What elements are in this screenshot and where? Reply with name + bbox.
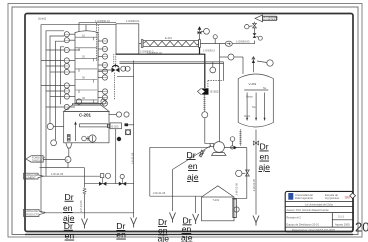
svg-text:Nm: Nm bbox=[252, 105, 256, 109]
instrument tag marks bbox=[64, 34, 107, 107]
bottom drenaje label 4 bbox=[181, 215, 193, 242]
svg-text:Equipo de Destilacion 20-01: Equipo de Destilacion 20-01 bbox=[287, 223, 320, 227]
V-201 inlet instrument bbox=[228, 54, 234, 60]
mid drain corner line bbox=[150, 146, 210, 148]
signal dashed from valve down bbox=[114, 73, 116, 100]
drain label mid-left bbox=[187, 150, 199, 182]
svg-text:V-201: V-201 bbox=[249, 82, 257, 86]
drain line V-201 bbox=[255, 130, 257, 215]
overhead piping box bbox=[116, 24, 139, 54]
ejector outlet instrument bbox=[202, 112, 208, 118]
svg-text:T-201: T-201 bbox=[213, 198, 220, 202]
condenser left flange bbox=[141, 40, 143, 48]
aux instrument circle bbox=[210, 67, 216, 73]
svg-text:1-GW300-01: 1-GW300-01 bbox=[95, 19, 110, 23]
kettle agitator icon bbox=[82, 136, 87, 141]
drain arrow 1 bbox=[82, 219, 88, 229]
drain arrow V-201 bbox=[253, 216, 259, 226]
svg-text:1-GW300-2: 1-GW300-2 bbox=[140, 50, 154, 54]
svg-text:200: 200 bbox=[355, 220, 368, 235]
line to tank bbox=[150, 195, 202, 197]
left signal bus 2 bbox=[46, 31, 64, 176]
svg-text:E-201: E-201 bbox=[165, 36, 172, 40]
svg-text:SB: SB bbox=[345, 195, 351, 200]
column to valve line bbox=[98, 69, 112, 71]
aux signal rectangle right edge bbox=[223, 62, 225, 81]
tank inlet valve instrument bbox=[236, 170, 242, 176]
E-203 drain dot bbox=[117, 137, 121, 141]
svg-text:Revision # 2: Revision # 2 bbox=[287, 216, 302, 220]
kettle transition cone bbox=[64, 105, 109, 111]
kettle right level bridle circles bbox=[116, 112, 121, 117]
kettle bottoms line across bbox=[41, 167, 85, 169]
E-203 outlet valve dark bbox=[125, 123, 129, 126]
aux signal dashed bottom bbox=[208, 80, 224, 82]
left signal bus 5 bbox=[61, 47, 65, 104]
tank T-201 bbox=[202, 197, 235, 221]
kettle bottom nozzle bbox=[66, 143, 72, 148]
condenser outlet stub bbox=[199, 47, 201, 54]
bottom drenaje label 1 bbox=[63, 192, 75, 241]
E-203 reboiler box bbox=[110, 123, 122, 129]
svg-text:ALIMENT: ALIMENT bbox=[25, 176, 37, 180]
signal dashed pair down from box bbox=[113, 54, 115, 64]
barometric leg hatched bbox=[203, 95, 205, 112]
drain drop line bbox=[172, 170, 174, 212]
left signal bus 3 bbox=[50, 36, 64, 123]
svg-text:Dr: Dr bbox=[260, 142, 269, 152]
svg-text:aje: aje bbox=[181, 233, 193, 242]
svg-text:1-GW30-03: 1-GW30-03 bbox=[236, 40, 250, 44]
instrument circles right column bbox=[98, 38, 108, 106]
drain line flange valve bbox=[253, 141, 258, 145]
svg-text:en: en bbox=[63, 203, 73, 213]
svg-text:1-P-21-06: 1-P-21-06 bbox=[131, 152, 135, 164]
svg-text:E-202: E-202 bbox=[211, 90, 219, 94]
vent valve lower instrument bbox=[258, 36, 262, 40]
E-203 instrument in square bbox=[125, 130, 130, 135]
svg-text:aje: aje bbox=[187, 172, 199, 182]
kettle top instrument circles bbox=[76, 99, 81, 104]
valve 2 instrument circle bbox=[120, 174, 124, 178]
bottom drain header line bbox=[25, 233, 353, 235]
V-201 bottom outlet hatched bbox=[239, 129, 241, 146]
overhead vapor line bbox=[79, 23, 116, 32]
vent valve upper instrument bbox=[245, 25, 249, 29]
condenser vent instrument bbox=[204, 28, 210, 34]
svg-text:PRODUCTO: PRODUCTO bbox=[25, 212, 40, 216]
bottoms line to lower area bbox=[40, 167, 69, 169]
kettle left lower circle bbox=[51, 140, 57, 146]
dashed pair from overhead bbox=[96, 23, 98, 61]
pump discharge check valve bbox=[231, 146, 234, 149]
valve 1 bbox=[99, 182, 106, 186]
condenser vent arrow up bbox=[198, 26, 202, 30]
vent valve lower (closed) bbox=[253, 33, 257, 38]
svg-text:en: en bbox=[260, 152, 270, 162]
condensate line right bbox=[200, 43, 225, 45]
accumulator V-201 shell bbox=[238, 74, 273, 127]
reflux control valve bbox=[112, 64, 120, 73]
tank side instrument bbox=[234, 207, 239, 212]
svg-text:C-201: C-201 bbox=[79, 112, 92, 117]
bottom drenaje label 2 bbox=[116, 221, 126, 240]
condenser right flange bbox=[199, 40, 201, 48]
svg-text:NL: NL bbox=[263, 86, 267, 90]
drain drop line 4 bbox=[195, 196, 197, 213]
vent line to flag bbox=[232, 41, 254, 44]
valve 2 bbox=[119, 182, 126, 186]
svg-text:en: en bbox=[65, 231, 75, 241]
column C-201 shell bbox=[75, 31, 98, 103]
logo bbox=[288, 193, 293, 200]
pump discharge line bbox=[224, 147, 246, 149]
tank side pipe bbox=[233, 199, 236, 218]
lower pipe pair right of valve bbox=[117, 76, 134, 78]
svg-text:TANQUE: TANQUE bbox=[32, 158, 43, 162]
condensate line instrument bbox=[213, 35, 217, 39]
bottoms drain pipe bbox=[85, 183, 134, 185]
svg-text:La Universidad del Zulia: La Universidad del Zulia bbox=[305, 202, 333, 206]
svg-text:Zulia Ingenieria: Zulia Ingenieria bbox=[295, 196, 313, 200]
V-201 level arrows bbox=[246, 93, 248, 121]
left bus links to instruments bbox=[46, 49, 64, 51]
kettle left instrument circle bbox=[47, 123, 53, 129]
svg-text:A COMPRESOR: A COMPRESOR bbox=[263, 18, 278, 21]
off-page connector flag vent bbox=[255, 15, 263, 22]
control valve instrument circles bbox=[121, 66, 126, 71]
kettle shell C-201 bbox=[64, 111, 109, 142]
valve 1 instrument square bbox=[100, 174, 103, 178]
svg-text:Ing Quimica: Ing Quimica bbox=[325, 196, 339, 200]
V-201 PSV circle bbox=[267, 60, 273, 66]
svg-text:2-1-1: 2-1-1 bbox=[338, 215, 345, 219]
feed line 2 bbox=[45, 212, 133, 214]
bottom drenaje label 3 bbox=[158, 217, 170, 242]
column bottom flange bbox=[72, 104, 100, 105]
pump P-201 bbox=[214, 142, 225, 153]
overhead vapor thick line to ejector bbox=[116, 54, 205, 88]
condenser E-201 shell bbox=[143, 41, 199, 47]
svg-text:1-GW30-2: 1-GW30-2 bbox=[203, 48, 216, 52]
condenser vent valve bbox=[198, 31, 202, 35]
flow oval bbox=[225, 41, 232, 46]
discharge down line to tank bbox=[232, 148, 247, 199]
mid vertical line bbox=[133, 61, 135, 218]
svg-text:Presentacion: GG-D-DEST-201-00: Presentacion: GG-D-DEST-201-0028 bbox=[292, 228, 335, 232]
drain arrow 4 bbox=[193, 214, 199, 224]
svg-text:1-W-21-06: 1-W-21-06 bbox=[51, 172, 64, 176]
E-203 valve to mid line bbox=[128, 124, 134, 126]
drain spring line bbox=[84, 168, 86, 188]
left signal bus 4 bbox=[56, 41, 65, 140]
bottoms flag left bbox=[26, 156, 43, 162]
drain label mid-right bbox=[259, 142, 271, 173]
left signal bus 1 bbox=[41, 25, 86, 213]
svg-text:Agosto 2008: Agosto 2008 bbox=[335, 222, 350, 226]
V-201 normal level line bbox=[244, 89, 268, 91]
tank inlet valve bbox=[246, 170, 250, 176]
svg-text:Asesor: Prof. Antonio Raquel F: Asesor: Prof. Antonio Raquel Fuente bbox=[287, 208, 330, 212]
kettle internal weir slot bbox=[80, 124, 108, 127]
condenser vent stem bbox=[199, 30, 201, 40]
feed flag 2 bbox=[24, 209, 46, 216]
svg-text:2-W-21-05: 2-W-21-05 bbox=[252, 178, 256, 191]
kettle level arrow bbox=[75, 123, 77, 142]
bottoms instrument circle bbox=[65, 157, 71, 163]
svg-text:2-W-21-05: 2-W-21-05 bbox=[234, 183, 238, 196]
line from condenser area down to pump bbox=[219, 44, 221, 143]
condenser coil bbox=[143, 41, 199, 45]
valve 1 instrument circle bbox=[105, 173, 110, 178]
pump suction diagonal bbox=[173, 146, 212, 170]
svg-text:E-203: E-203 bbox=[112, 124, 119, 128]
fold diamond bbox=[350, 193, 356, 199]
suction diagonal valve bbox=[200, 150, 204, 157]
svg-text:en: en bbox=[116, 230, 126, 240]
V-201 top relief nozzle bbox=[252, 63, 254, 72]
svg-text:Dr: Dr bbox=[64, 221, 73, 231]
ejector E-202 bbox=[201, 88, 209, 95]
svg-text:1-GW30-01: 1-GW30-01 bbox=[126, 19, 140, 23]
drain arrow 3 bbox=[170, 213, 176, 223]
svg-text:aje: aje bbox=[158, 234, 170, 242]
instrument circles left column bbox=[64, 32, 80, 110]
svg-text:2(mk)2: 2(mk)2 bbox=[38, 17, 47, 21]
kettle level gauge bbox=[67, 135, 70, 142]
title row dividers bbox=[285, 200, 353, 202]
svg-text:Nmax: Nmax bbox=[246, 95, 253, 99]
vent valve upper bbox=[253, 23, 257, 28]
title block outer bbox=[285, 191, 355, 232]
downcomer to condenser bbox=[139, 44, 142, 55]
svg-text:en: en bbox=[188, 161, 198, 171]
svg-text:2-W-21-06: 2-W-21-06 bbox=[153, 191, 166, 195]
svg-text:2-P-21-05: 2-P-21-05 bbox=[79, 200, 83, 212]
column trays bbox=[75, 37, 97, 103]
drain arrow 2 bbox=[131, 218, 137, 228]
svg-text:Dr: Dr bbox=[187, 150, 196, 160]
svg-text:Dr: Dr bbox=[65, 192, 74, 202]
reflux lines to accumulator bbox=[120, 61, 224, 63]
svg-text:Nmin: Nmin bbox=[244, 114, 251, 118]
svg-text:LI: LI bbox=[66, 158, 68, 162]
feed flag 1 bbox=[24, 173, 44, 179]
pump discharge instrument bbox=[230, 137, 235, 142]
svg-text:aje: aje bbox=[259, 162, 271, 172]
